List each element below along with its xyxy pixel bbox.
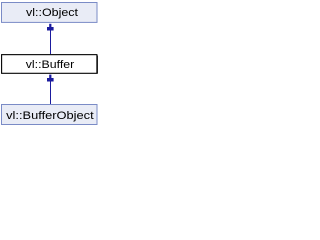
node vl::BufferObject bbox=[2, 105, 98, 125]
inheritance arrow from vl::Buffer to vl::Object bbox=[47, 24, 54, 54]
svg-text:vl::Buffer: vl::Buffer bbox=[26, 59, 75, 71]
inheritance arrow from vl::BufferObject to vl::Buffer bbox=[47, 75, 54, 104]
node vl::Buffer (current) bbox=[2, 55, 98, 74]
svg-text:vl::Object: vl::Object bbox=[26, 7, 78, 19]
node vl::Object bbox=[2, 3, 98, 23]
svg-text:vl::BufferObject: vl::BufferObject bbox=[6, 110, 94, 122]
